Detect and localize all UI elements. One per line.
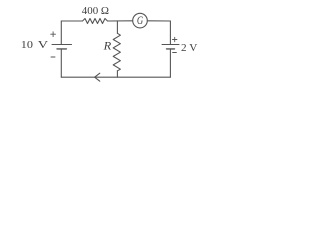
svg-text:G: G bbox=[137, 15, 144, 27]
wire left side upper bbox=[60, 21, 62, 45]
svg-text:400 Ω: 400 Ω bbox=[82, 6, 109, 17]
wire right side lower bbox=[169, 49, 171, 77]
battery V1 plus sign bbox=[51, 33, 56, 35]
battery V1 long plate bbox=[52, 44, 72, 46]
wire top middle segment bbox=[108, 20, 133, 22]
battery V1 short plate bbox=[57, 48, 66, 50]
svg-text:2 V: 2 V bbox=[181, 42, 197, 54]
galvanometer G circle bbox=[133, 13, 148, 28]
current arrow bbox=[95, 73, 100, 81]
wire top-left segment bbox=[61, 20, 82, 22]
wire left side lower bbox=[60, 49, 62, 77]
wire middle branch upper bbox=[116, 21, 118, 33]
wire bottom bbox=[61, 76, 170, 78]
resistor R vertical zigzag bbox=[113, 33, 120, 71]
battery V2 long plate bbox=[162, 44, 179, 46]
svg-text:V: V bbox=[38, 39, 48, 51]
wire right side upper bbox=[169, 21, 171, 45]
svg-text:R: R bbox=[103, 40, 112, 52]
battery V2 plus sign bbox=[173, 39, 177, 41]
svg-text:10: 10 bbox=[21, 39, 34, 51]
wire middle branch lower bbox=[116, 71, 118, 77]
wire top-right segment bbox=[147, 20, 170, 22]
battery V1 minus sign bbox=[51, 56, 55, 58]
battery V2 short plate bbox=[167, 48, 175, 50]
resistor R1 400 ohm zigzag bbox=[83, 19, 108, 24]
battery V2 minus sign bbox=[173, 52, 177, 54]
